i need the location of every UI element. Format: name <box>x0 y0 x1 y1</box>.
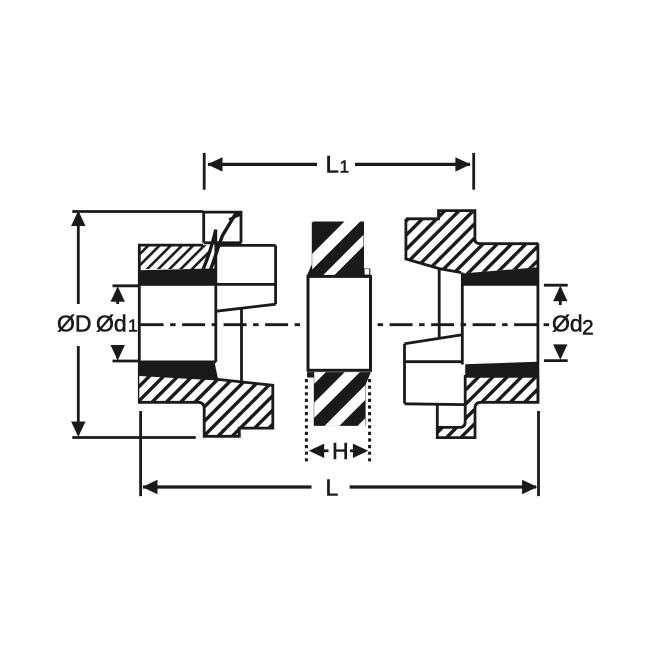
svg-text:1: 1 <box>128 316 138 336</box>
dimension Od2 (right vertical) <box>544 285 568 360</box>
right hub lower black band (bush) <box>465 362 538 377</box>
right hub lower jaw seen in elevation <box>405 335 466 428</box>
svg-text:2: 2 <box>582 317 594 340</box>
label Od1 <box>96 311 138 337</box>
label Od2 <box>552 311 594 340</box>
label L <box>326 475 339 501</box>
label H <box>332 438 349 464</box>
left hub upper jaw seen in elevation <box>216 230 276 383</box>
right hub bore top edge <box>462 283 538 286</box>
svg-text:L: L <box>326 151 339 178</box>
left hub upper sectioned region (body band, fine hatched) <box>139 245 210 269</box>
left hub flange plate section (slanted channel inside flange rectangle) <box>203 212 241 269</box>
left hub bore bottom edge <box>139 360 216 363</box>
dimension L (bottom overall) <box>141 411 539 496</box>
left hub body left edge <box>138 244 141 404</box>
right hub verticals (flange faces) <box>439 244 538 403</box>
label L1 <box>326 151 350 178</box>
svg-text:L: L <box>326 475 339 501</box>
spider middle hub (white rectangle) <box>308 276 371 370</box>
svg-text:H: H <box>332 438 349 464</box>
label OD <box>57 311 92 337</box>
dimension L1 (top) <box>204 153 474 190</box>
spider bottom striped block <box>237 0 670 450</box>
centerline (horizontal dash-dot axis) <box>141 323 550 326</box>
right hub upper sectioned mass (jaw + flange + body, hatched) <box>406 211 539 274</box>
right hub upper black band (bush) <box>462 267 538 283</box>
left hub lower black band (bush) <box>139 362 218 379</box>
svg-text:Ød: Ød <box>96 311 127 337</box>
left hub lower sectioned mass (body + flange + jaw, hatched) <box>139 375 272 437</box>
dimension H (bottom center, dotted extension lines) <box>306 379 369 463</box>
right hub lower sectioned band, flange neck and foot (hatched) <box>437 376 538 437</box>
dimension Od1 (inner left vertical) <box>111 286 140 361</box>
dimension OD (far left vertical) <box>71 211 203 438</box>
svg-text:Ød: Ød <box>552 311 583 337</box>
left hub upper black band (bush) <box>139 268 216 285</box>
svg-text:1: 1 <box>340 156 350 176</box>
left hub bore top edge <box>139 283 275 286</box>
svg-text:ØD: ØD <box>57 311 92 337</box>
spider top striped block <box>174 0 610 350</box>
